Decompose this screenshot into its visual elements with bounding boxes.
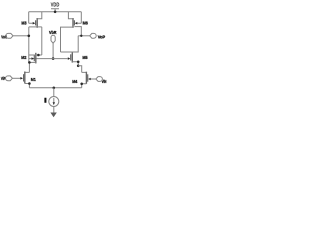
transistor M6 (PMOS load, right, mirrored): bulk to VDD, source to VDD [61,12,82,52]
transistor M3 (PMOS load, left): bulk to VDD, source to VDD [29,12,42,28]
svg-text:VDD: VDD [51,2,60,8]
tail bus wire [29,87,81,89]
node VbR junction dot [52,57,55,60]
svg-text:M3: M3 [21,21,27,26]
input port ViN [91,77,107,84]
svg-text:I: I [44,98,47,105]
svg-text:ViP: ViP [1,76,6,81]
output port VoN [1,33,29,39]
node VDD junction dot [54,11,57,14]
wire tail to current source [53,88,55,97]
node M4 drain junction dot [77,65,80,68]
bias bus wire to M2 and M5 gates [29,58,68,60]
transistor M2 (NMOS cascode, left) [29,53,42,64]
VDD supply symbol [51,9,59,12]
svg-text:M6: M6 [83,21,89,26]
svg-text:VbR: VbR [49,30,57,35]
wire current source to ground [53,107,55,113]
transistor M5 (NMOS cascode, right) [61,36,79,66]
wire M5 source to M4 drain [78,66,86,73]
bias port VbR (center) [49,30,57,58]
svg-text:M2: M2 [21,55,27,60]
wire M3 gate/drain column down to node N1 [41,27,43,55]
transistor M1 (NMOS input, left) [20,72,29,88]
VDD rail wire [29,11,82,13]
output port VoP [78,33,105,39]
node N1 junction dot [37,54,40,57]
wire M2 source to M1 drain [25,62,30,72]
node tail junction dot [53,87,56,90]
node M5 source junction dot [77,61,80,64]
svg-text:M4: M4 [72,79,78,84]
current source I1 [49,97,59,107]
node M2 source junction dot [28,61,31,64]
svg-text:M1: M1 [31,77,36,82]
node M1 source junction dot [28,82,31,85]
input port ViP [1,76,21,81]
node M4 source junction dot [80,83,83,86]
wire VoN column (M3 drain, M2 drain, output node) [28,27,30,63]
transistor M4 (NMOS input, right, mirrored) [82,72,91,88]
svg-text:M5: M5 [82,55,88,60]
node M6 gate junction dot [80,35,82,37]
svg-text:VoP: VoP [98,35,105,40]
node VoN junction dot [28,35,31,38]
ground [50,113,56,118]
